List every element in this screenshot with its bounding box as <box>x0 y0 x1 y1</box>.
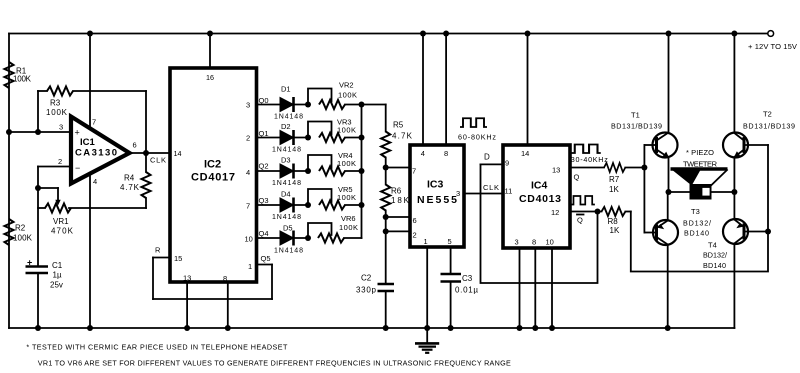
svg-text:30-40KHz: 30-40KHz <box>571 155 608 164</box>
diode D2 <box>272 122 308 154</box>
node supply terminal circle <box>768 31 774 37</box>
capacitor C2 <box>356 231 394 331</box>
svg-text:BD132/: BD132/ <box>683 219 711 228</box>
svg-text:NE555: NE555 <box>417 194 457 206</box>
svg-text:* TESTED WITH CERMIC EAR PIEC: * TESTED WITH CERMIC EAR PIECE USED IN T… <box>26 343 288 352</box>
svg-text:Q: Q <box>577 216 583 225</box>
svg-text:1N4148: 1N4148 <box>274 248 303 255</box>
svg-text:CLK: CLK <box>150 156 166 165</box>
svg-text:T4: T4 <box>708 241 717 250</box>
wire D loop pin9 to pin12 <box>481 153 598 284</box>
diode D4 <box>272 190 308 222</box>
svg-text:100K: 100K <box>339 223 358 232</box>
waveform 60-80KHz <box>458 118 496 141</box>
pin 7 of IC1 <box>87 31 96 129</box>
svg-text:2: 2 <box>413 231 417 240</box>
svg-text:IC1: IC1 <box>80 137 96 148</box>
potentiometer VR2 <box>305 81 365 110</box>
svg-text:VR1: VR1 <box>53 217 69 226</box>
svg-text:D: D <box>484 153 490 162</box>
svg-text:Q3: Q3 <box>259 196 269 205</box>
svg-text:D4: D4 <box>281 190 291 199</box>
wire R4/VR1 ground link <box>69 207 146 209</box>
svg-text:9: 9 <box>505 159 509 168</box>
svg-text:18K: 18K <box>391 196 410 205</box>
capacitor C1 <box>26 258 63 332</box>
node Q4 row <box>245 229 281 244</box>
transistor Q3 T3 BD132/BD140 <box>644 192 711 331</box>
svg-text:R4: R4 <box>124 174 135 183</box>
pin 4 of IC3 <box>420 31 426 146</box>
svg-text:25v: 25v <box>50 281 63 290</box>
wire R3 left vertical <box>37 91 39 132</box>
pin 8 of IC3 <box>443 31 449 146</box>
svg-text:Q: Q <box>574 173 580 182</box>
svg-text:IC3: IC3 <box>427 179 444 191</box>
svg-text:VR6: VR6 <box>341 214 356 223</box>
pin 14 of IC4 <box>525 31 531 146</box>
svg-text:4.7K: 4.7K <box>392 132 413 141</box>
svg-text:D1: D1 <box>281 85 291 94</box>
svg-text:15: 15 <box>174 254 182 263</box>
pin 10 of IC4 <box>549 248 555 331</box>
svg-text:11: 11 <box>505 187 513 196</box>
svg-text:* PIEZO: * PIEZO <box>686 148 714 157</box>
svg-text:R: R <box>155 246 161 255</box>
svg-text:7: 7 <box>92 118 96 127</box>
svg-text:2: 2 <box>246 134 250 143</box>
svg-text:C3: C3 <box>462 274 473 283</box>
svg-text:4.7K: 4.7K <box>120 183 140 192</box>
resistor R4 <box>120 153 151 208</box>
svg-text:BD140: BD140 <box>684 229 709 238</box>
svg-text:BD131/BD139: BD131/BD139 <box>743 122 795 131</box>
svg-text:7: 7 <box>412 167 416 176</box>
capacitor C3 <box>441 247 479 331</box>
transistor Q1 T1 BD131/BD139 <box>611 31 678 193</box>
svg-text:8: 8 <box>444 149 448 158</box>
svg-text:CD4017: CD4017 <box>191 172 235 184</box>
wire VR common bus <box>361 105 363 239</box>
svg-text:100K: 100K <box>337 126 356 135</box>
pin 3 of IC4 <box>517 248 523 331</box>
pin 1 of IC3 <box>424 247 430 331</box>
svg-text:100K: 100K <box>338 91 357 100</box>
speaker piezo tweeter <box>666 148 738 200</box>
resistor R6 <box>381 168 409 218</box>
svg-text:8: 8 <box>223 274 227 283</box>
svg-text:470K: 470K <box>51 227 74 236</box>
node Q3 row <box>246 196 280 211</box>
svg-text:4: 4 <box>246 168 250 177</box>
resistor R8 <box>602 145 769 272</box>
svg-text:D2: D2 <box>281 122 291 131</box>
svg-text:2: 2 <box>58 157 62 166</box>
svg-text:1: 1 <box>248 262 252 271</box>
resistor R7 <box>570 163 647 194</box>
svg-text:0.01µ: 0.01µ <box>455 286 478 295</box>
svg-text:4: 4 <box>421 149 425 158</box>
svg-text:3: 3 <box>515 238 519 247</box>
svg-text:3: 3 <box>246 101 250 110</box>
svg-text:VR2: VR2 <box>339 81 354 90</box>
wire IC3 pin3 to IC4 CLK <box>464 183 503 194</box>
svg-text:100K: 100K <box>13 234 33 243</box>
svg-text:C2: C2 <box>361 274 372 283</box>
resistor R3 feedback <box>38 87 146 154</box>
svg-text:−: − <box>75 163 80 173</box>
wire Q pin13 row <box>574 173 580 182</box>
svg-text:330p: 330p <box>356 286 377 295</box>
svg-text:C1: C1 <box>52 261 63 270</box>
svg-text:R3: R3 <box>50 99 61 108</box>
diode D5 <box>274 224 308 255</box>
wire IC1 output to IC2 pin14 <box>130 150 171 165</box>
svg-text:3: 3 <box>456 189 460 198</box>
svg-text:Q2: Q2 <box>259 162 269 171</box>
node pin3 input wire <box>6 129 71 135</box>
svg-text:+ 12V TO 15V: + 12V TO 15V <box>748 42 798 51</box>
pin 16 of IC2 <box>206 31 214 83</box>
resistor R5 <box>381 105 412 168</box>
pin 8 of IC4 <box>532 248 538 331</box>
wire T1/T3 base link <box>643 145 645 233</box>
svg-text:R2: R2 <box>15 224 26 233</box>
svg-text:BD131/BD139: BD131/BD139 <box>611 122 662 131</box>
potentiometer VR3 <box>305 118 365 143</box>
svg-text:T1: T1 <box>631 111 640 120</box>
svg-text:1N4148: 1N4148 <box>274 114 303 121</box>
svg-text:CD4013: CD4013 <box>519 193 561 205</box>
svg-text:BD132/: BD132/ <box>703 251 727 260</box>
potentiometer VR4 <box>305 151 365 176</box>
wire Qbar pin12 row <box>570 209 602 225</box>
svg-text:4: 4 <box>93 177 97 186</box>
svg-text:Q5: Q5 <box>261 254 271 263</box>
potentiometer VR5 <box>305 185 365 210</box>
svg-text:3: 3 <box>59 123 63 132</box>
pin 15 reset loop <box>153 246 272 300</box>
svg-text:14: 14 <box>521 149 529 158</box>
svg-text:1µ: 1µ <box>53 271 62 280</box>
wire left rail <box>8 34 10 329</box>
svg-text:12: 12 <box>551 208 559 217</box>
svg-text:+: + <box>27 258 32 268</box>
svg-text:R6: R6 <box>391 187 402 196</box>
diode D1 <box>274 85 308 121</box>
wire to IC3 pin7 <box>383 165 410 171</box>
IC U4 CD4013 body <box>503 145 570 248</box>
svg-text:1N4148: 1N4148 <box>272 214 301 221</box>
IC U3 NE555 body <box>410 145 464 247</box>
svg-text:7: 7 <box>246 202 250 211</box>
resistor R2 <box>5 219 33 245</box>
svg-text:TWEETER: TWEETER <box>683 160 718 169</box>
pin 13 of IC2 <box>183 274 191 332</box>
svg-text:CLK: CLK <box>483 183 499 192</box>
pin 4 of IC1 <box>87 174 97 332</box>
svg-text:D5: D5 <box>283 224 293 233</box>
ground <box>415 328 439 353</box>
svg-text:5: 5 <box>448 237 452 246</box>
svg-text:100K: 100K <box>337 159 356 168</box>
wire pin2 input <box>38 166 71 168</box>
svg-text:IC2: IC2 <box>204 159 221 171</box>
potentiometer VR6 <box>305 214 362 243</box>
wire bus to R5 <box>362 104 386 106</box>
svg-text:IC4: IC4 <box>531 180 548 192</box>
op-amp U1 IC1 CA3130 <box>71 117 130 184</box>
svg-text:6: 6 <box>413 216 417 225</box>
svg-text:14: 14 <box>174 149 182 158</box>
svg-text:+: + <box>75 128 80 138</box>
svg-text:BD140: BD140 <box>703 261 726 270</box>
wire bottom ground rail <box>9 327 734 329</box>
svg-text:10: 10 <box>245 235 253 244</box>
svg-text:100K: 100K <box>337 193 356 202</box>
svg-text:R7: R7 <box>609 175 620 184</box>
svg-text:13: 13 <box>183 274 191 283</box>
svg-text:T3: T3 <box>691 207 700 216</box>
svg-text:1N4148: 1N4148 <box>272 180 301 187</box>
svg-text:R5: R5 <box>393 121 404 130</box>
svg-text:Q4: Q4 <box>259 229 269 238</box>
svg-text:VR1 TO VR6 ARE SET FOR DIFFER: VR1 TO VR6 ARE SET FOR DIFFERENT VALUES … <box>38 359 511 368</box>
resistor R1 <box>5 62 32 88</box>
transistor Q2 T2 BD131/BD139 <box>723 31 795 193</box>
node Q0 row <box>246 96 280 110</box>
svg-text:Q1: Q1 <box>259 129 269 138</box>
waveform at pin12 <box>571 196 595 204</box>
node Q1 row <box>246 129 280 143</box>
svg-text:1: 1 <box>424 237 428 246</box>
pin 8 of IC2 <box>223 274 231 331</box>
svg-text:10: 10 <box>546 238 554 247</box>
svg-text:R8: R8 <box>608 217 619 226</box>
svg-text:6: 6 <box>133 141 137 150</box>
svg-text:16: 16 <box>206 73 214 82</box>
wire to IC3 pin2 <box>383 217 410 234</box>
potentiometer VR1 <box>38 188 74 236</box>
wire to IC3 pin6 <box>383 214 410 220</box>
waveform 30-40KHz <box>571 145 608 164</box>
wire pin2 vertical to C1 <box>35 167 41 267</box>
svg-text:D3: D3 <box>281 156 291 165</box>
wire top supply rail <box>9 33 768 35</box>
svg-text:100K: 100K <box>46 108 68 117</box>
svg-text:13: 13 <box>552 166 560 175</box>
IC U2 CD4017 body <box>170 68 257 282</box>
svg-text:1K: 1K <box>609 185 619 194</box>
svg-text:1K: 1K <box>610 226 620 235</box>
node Q2 row <box>246 162 280 178</box>
transistor Q4 T4 BD132/BD140 <box>703 192 771 328</box>
svg-text:Q0: Q0 <box>259 96 269 105</box>
svg-text:60-80KHz: 60-80KHz <box>458 133 496 142</box>
svg-text:T2: T2 <box>763 110 772 119</box>
svg-text:100K: 100K <box>13 75 32 84</box>
svg-text:8: 8 <box>532 238 536 247</box>
diode D3 <box>272 156 308 188</box>
svg-text:1N4148: 1N4148 <box>272 147 301 154</box>
